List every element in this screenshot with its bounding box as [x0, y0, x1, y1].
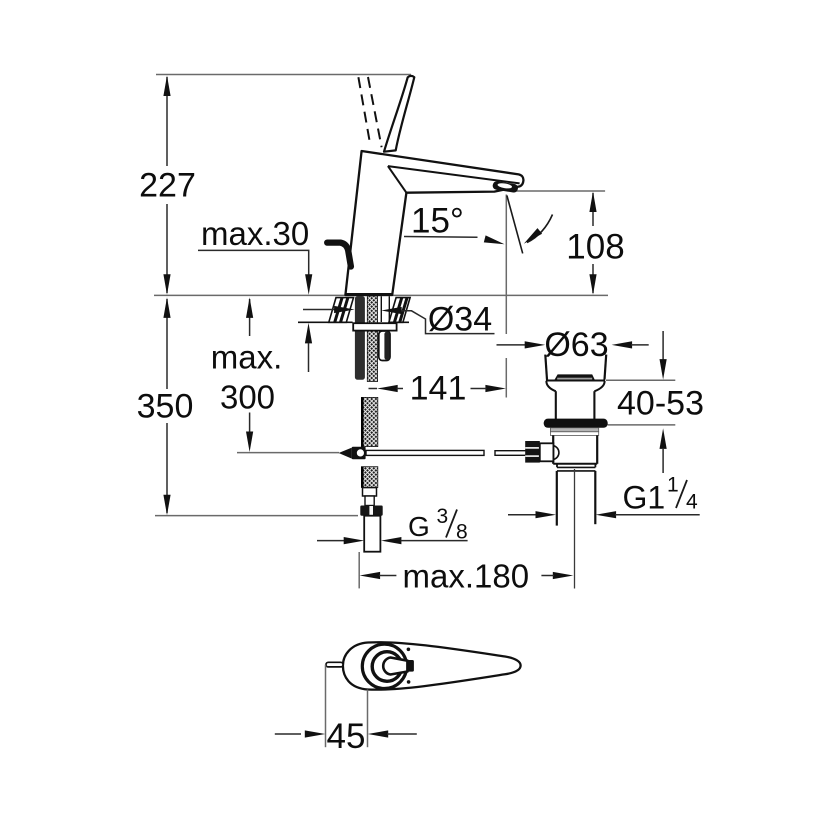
- mounting washer: [353, 323, 396, 330]
- drain body bottom: [553, 463, 597, 465]
- 141 left arrow: [377, 385, 398, 392]
- handle screw dot top: [407, 648, 411, 652]
- flexible hose lower section: [361, 467, 377, 488]
- 45 left extension line: [325, 665, 327, 748]
- 40-53 top extension line: [606, 379, 675, 381]
- pop-up rod joint ball: [356, 449, 365, 458]
- hose nut: [360, 506, 382, 516]
- 108 bottom arrow: [589, 274, 596, 295]
- lever handle dashed alternate position right edge: [368, 77, 382, 147]
- svg-text:G1: G1: [623, 480, 666, 516]
- deck cross-section hatch right: [389, 298, 410, 323]
- max.300 top arrow: [246, 297, 253, 318]
- pop-up horizontal rod left segment: [366, 450, 484, 455]
- svg-text:1: 1: [667, 474, 679, 497]
- handle rosette outer ring: [362, 644, 406, 688]
- diameter63 left arrow: [525, 341, 546, 348]
- diameter34 left arrow: [334, 306, 355, 313]
- drain centerline: [574, 469, 576, 589]
- lever handle (solid position): [384, 76, 414, 152]
- svg-text:108: 108: [566, 228, 624, 267]
- 45 dimension right arrow: [368, 730, 389, 737]
- diameter34 right arrow: [381, 307, 402, 314]
- drain waste cup left wall: [545, 355, 547, 380]
- aerator (spout outlet): [492, 181, 518, 193]
- svg-text:max.180: max.180: [403, 558, 530, 595]
- max.180 left extension line: [358, 552, 360, 588]
- deck bottom edge left segment: [298, 321, 353, 323]
- faucet spout inner crease line upper: [388, 166, 520, 183]
- max.30 lower arrow to deck bottom: [305, 323, 312, 344]
- diameter 63 dimension line left tail: [497, 344, 527, 346]
- drain plug head: [554, 374, 595, 380]
- svg-text:45: 45: [327, 717, 366, 756]
- svg-text:G: G: [408, 511, 430, 542]
- max.180 left arrow: [360, 572, 381, 579]
- faucet spout inner crease line lower: [388, 166, 407, 193]
- spout outlet extension line down to 141: [505, 195, 507, 335]
- handle stem (white): [383, 658, 407, 675]
- 40-53 bottom arrow: [660, 428, 667, 449]
- shank right guide lines: [380, 296, 382, 322]
- G3/8 threaded pipe end: [364, 516, 380, 552]
- drain seal washer gray: [550, 428, 598, 432]
- svg-text:Ø34: Ø34: [428, 301, 492, 339]
- drain ball-joint knurled nut: [525, 441, 540, 463]
- drain neck walls: [555, 391, 557, 419]
- faucet body outline: [345, 151, 523, 295]
- max.30 arrow to deck top: [305, 274, 312, 295]
- hose end connector lower: [365, 496, 374, 506]
- svg-text:max.30: max.30: [201, 215, 309, 252]
- diameter34 leader polyline to label: [401, 311, 495, 334]
- max.300 bottom arrow: [246, 432, 253, 453]
- G 3/8 dimension line: [317, 540, 346, 542]
- drain waste cup right wall: [605, 355, 607, 380]
- 141 dimension left tick: [369, 388, 378, 390]
- pop-up rod cone fitting: [339, 448, 352, 459]
- svg-text:8: 8: [456, 521, 468, 544]
- svg-text:3: 3: [437, 505, 449, 528]
- hose end connector upper: [363, 488, 377, 496]
- drain seal washer white: [550, 432, 598, 436]
- svg-text:max.: max.: [211, 339, 283, 376]
- G3/8 left arrow: [344, 537, 365, 544]
- drain ball arc: [553, 446, 559, 460]
- svg-text:15°: 15°: [411, 202, 464, 241]
- 15 degree dimension line: [404, 236, 478, 239]
- 45 right extension line: [367, 690, 369, 748]
- 40-53 vertical dimension line: [662, 331, 664, 360]
- threaded stud (crosshatch): [367, 296, 377, 382]
- pop-up horizontal rod right segment: [495, 451, 527, 456]
- handle top view outline: [343, 642, 521, 689]
- G 1 1/4 dimension line: [508, 514, 538, 516]
- lever handle dashed alternate position left edge: [358, 77, 370, 146]
- 45 dimension left arrow: [275, 733, 301, 735]
- 108 top extension line (outlet level): [511, 190, 605, 192]
- svg-text:40-53: 40-53: [617, 385, 704, 423]
- diameter63 right arrow: [612, 341, 633, 348]
- mounting hook clip: [379, 331, 390, 361]
- max.300 extension line to pop-up rod: [237, 452, 339, 454]
- 40-53 top arrow: [660, 359, 667, 380]
- dimension 108 vertical line: [592, 193, 594, 226]
- dimension 227 vertical line: [166, 77, 168, 166]
- dimension 350 vertical line: [166, 299, 168, 389]
- drain flange shoulder: [546, 380, 605, 382]
- G1-1/4 right arrow: [596, 511, 617, 518]
- handle knob tick: [326, 662, 343, 667]
- pop-up rod joint block: [352, 447, 366, 459]
- drain tailpipe walls G1 1/4: [556, 471, 558, 526]
- extension line at 350 bottom: [155, 515, 358, 517]
- svg-text:227: 227: [139, 167, 196, 205]
- drain step and grooves: [556, 464, 558, 468]
- deck bottom edge right segment: [389, 321, 409, 323]
- handle screw dot bottom: [407, 680, 411, 684]
- top extension line (spout height reference): [156, 74, 411, 76]
- max.180 right arrow: [553, 572, 574, 579]
- svg-text:Ø63: Ø63: [544, 326, 608, 364]
- 15 degree curved leader arrow: [524, 228, 542, 244]
- svg-text:300: 300: [220, 379, 275, 416]
- dimension Eurodisc 34 left leader: [303, 309, 335, 311]
- 15 degree water stream line: [507, 196, 523, 254]
- faucet base contact line: [345, 293, 392, 295]
- pop-up pull knob on body: [327, 243, 351, 267]
- G3/8 right arrow: [381, 537, 402, 544]
- G1-1/4 left arrow: [536, 511, 557, 518]
- flexible hose upper section: [361, 397, 377, 446]
- dimension 227 bottom arrow: [163, 274, 170, 295]
- dimension 350 bottom arrow: [163, 495, 170, 516]
- drain rubber seal ring: [544, 419, 608, 428]
- deck line (mounting surface): [154, 294, 608, 296]
- handle rosette inner ring: [372, 652, 402, 682]
- dimension max.300 vertical line: [249, 299, 251, 336]
- 108 top arrow: [589, 192, 596, 213]
- drain body walls: [552, 435, 554, 463]
- svg-text:350: 350: [137, 388, 194, 426]
- 15 degree arrow: [484, 235, 505, 244]
- drain ball-joint housing: [540, 443, 554, 461]
- max.30 leader underline: [198, 250, 309, 274]
- svg-text:4: 4: [686, 491, 698, 514]
- dimension 227 top arrow: [163, 76, 170, 97]
- dimension 350 top arrow: [163, 297, 170, 318]
- deck cross-section hatch left: [329, 298, 354, 323]
- 141 right arrow: [485, 385, 506, 392]
- 15 degree curved leader: [527, 215, 553, 243]
- svg-text:141: 141: [410, 370, 467, 408]
- handle stem black end cap: [406, 660, 414, 672]
- 40-53 bottom extension line: [608, 424, 676, 426]
- shank sleeve (dark): [355, 296, 365, 380]
